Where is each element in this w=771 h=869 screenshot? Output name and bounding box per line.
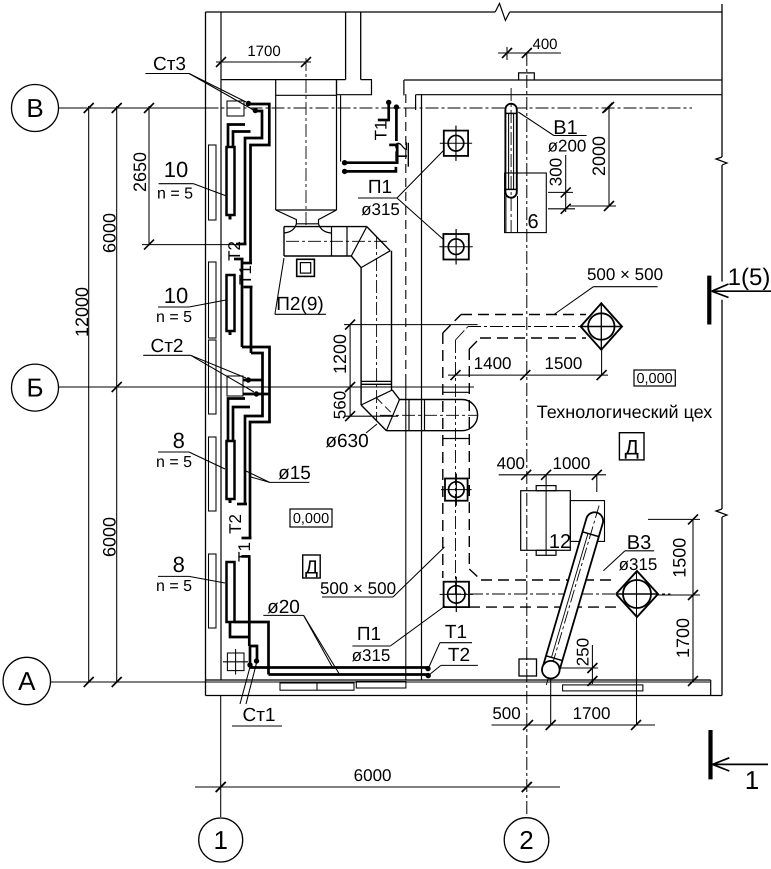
duct D630 horizontal top run [284,226,367,228]
unit P2 outlet flare [284,224,296,233]
svg-text:8: 8 [173,428,185,453]
svg-text:400: 400 [532,36,557,53]
wall break symbol right lower [716,509,727,517]
pipe T1 resume [244,286,253,289]
duct 500x500 bottom elbow chamfer [469,569,481,580]
svg-text:250: 250 [573,638,592,666]
duct 500x500 vertical dashed right [468,349,470,569]
riser St3 box [227,101,244,116]
B3 bottom anchor square [519,659,537,676]
window niche left wall 3 [209,340,217,414]
axis line 2 vertical [526,53,528,817]
svg-text:П2(9): П2(9) [276,294,323,315]
svg-text:10: 10 [164,157,188,182]
label T2 underline [407,143,409,167]
svg-text:Б: Б [26,373,43,403]
motor box below duct [297,259,315,276]
radiator 4 (8 n=5) [227,562,235,622]
pipe branch to radiator 3 b [233,407,250,441]
dimension 6000 bottom [195,786,560,788]
svg-text:1: 1 [213,825,227,855]
supply unit P2 body [275,80,277,210]
window niche left wall 1 [209,145,217,220]
riser St3 dots [246,101,251,106]
svg-text:n = 5: n = 5 [157,186,193,203]
pipe branch to radiator 1 b [233,132,251,148]
svg-text:ø315: ø315 [361,200,400,219]
window in bottom wall right [563,685,643,691]
dimension line 12000 [88,106,90,682]
svg-text:Т2: Т2 [448,645,470,666]
svg-text:12000: 12000 [72,287,92,337]
pipe T1 to unit [389,144,398,147]
riser St2 dots [246,377,251,382]
svg-text:n = 5: n = 5 [156,454,192,471]
svg-text:В: В [26,93,43,123]
svg-text:Д: Д [625,437,639,460]
exhaust B1 capsule [505,104,516,198]
svg-text:Т1: Т1 [236,265,255,285]
pipe T2 to unit [345,167,396,172]
axis circle Б [12,364,59,411]
duct 500x500 centerline vertical [455,340,457,594]
section mark 1 bottom right [708,730,712,779]
radiator 2 (10 n=5) [227,275,235,331]
wall: top-left room right pier [345,12,347,80]
wall: left outer wall [205,12,207,696]
unit P2 centerline [305,58,307,228]
svg-text:0,000: 0,000 [636,371,672,387]
duct capsule centerline [380,414,478,416]
dimension 400 top left extension [506,47,508,60]
svg-text:Технологический цех: Технологический цех [537,402,713,422]
radiator 1 (10 n=5) [227,147,235,215]
axis circle B [12,85,59,132]
pipe staircase at St2 inner [245,353,263,504]
svg-text:ø315: ø315 [619,555,658,574]
box 12 right attachment [570,501,604,542]
dimension 2000 (B1) [608,107,610,206]
svg-text:500: 500 [492,704,520,723]
pipe T1 end cap upper [243,262,252,265]
axis circle 2 [504,818,549,863]
pipe bottom run T1 [249,665,252,668]
pipe T2 staircase top [245,111,262,244]
svg-text:n = 5: n = 5 [156,309,192,326]
window in bottom wall left [280,683,354,690]
window niche left wall 5 [209,554,217,628]
duct capsule joints [408,400,410,431]
diffuser bottom vertical line [636,571,638,725]
wall: top wall with break [206,11,496,13]
pipe branch to radiator 3 a [228,399,245,442]
P1 duct outlet anchor bottom [444,582,469,607]
duct D630 flange joint above elbow [361,380,391,382]
duct D630 bottom elbow [361,405,386,431]
svg-text:2: 2 [519,825,533,855]
wall: top-left room bottom wall [221,79,346,81]
B1 centerline [510,88,512,234]
P1 duct outlet anchor top 2 [443,234,468,260]
pipe T2 resume [234,258,244,261]
wall: column notch at axis 2 [519,73,535,80]
wall: bottom wall right inner jamb [710,680,712,696]
diffuser top vertical line [600,302,602,348]
riser St2 stubs [243,379,263,382]
svg-text:6000: 6000 [99,517,119,557]
axis circle А [3,657,50,704]
svg-text:Д: Д [305,558,318,579]
wall: corridor wall dashed foundation line [405,94,407,380]
axis line Б horizontal [59,386,475,388]
svg-text:6000: 6000 [354,766,392,785]
svg-text:ø200: ø200 [548,137,587,156]
axis circle 1 [199,818,243,862]
duct D630 vertical run [360,268,362,405]
riser dots at wall (T1 T2 to unit) [386,100,391,105]
wall: bottom wall inner [206,679,711,681]
dimension 1200 (duct) [349,325,351,387]
svg-text:6: 6 [527,211,538,233]
wall: corridor wall solid line [421,94,423,680]
svg-text:1200: 1200 [330,334,350,374]
axis line А horizontal [51,681,711,683]
pipe to St1 dots [249,646,257,661]
svg-text:12: 12 [549,531,571,553]
duct 500x500 vertical dashed left [442,333,444,578]
svg-text:ø20: ø20 [267,597,300,618]
riser St1 dots [247,662,252,667]
svg-text:2000: 2000 [589,136,609,176]
unit P2 hopper trapezoid [276,209,337,211]
dimension 560 (duct) [349,387,351,416]
svg-text:10: 10 [164,283,188,308]
duct D630 horizontal bottom capsule [400,399,463,401]
label 0,000 left box [290,509,332,527]
svg-text:ø15: ø15 [278,463,311,484]
window niche left wall 4 [209,437,217,511]
pipe staircase at St2 outer [242,347,270,538]
wall: pier step block [337,80,372,95]
wall break symbol top [495,3,510,20]
label 0,000 right box [634,370,675,386]
pipe T1 staircase top [248,104,269,263]
ceiling diffuser diamond bottom [616,571,658,617]
wall: left inner wall line [220,12,222,680]
svg-text:6000: 6000 [99,213,119,253]
svg-text:ø630: ø630 [325,431,368,452]
radiator 3 (8 n=5) [227,441,235,499]
duct D630 top elbow [367,227,390,251]
pipe T2 end cap upper [236,243,247,246]
svg-text:500 × 500: 500 × 500 [320,579,396,598]
svg-text:1700: 1700 [573,704,611,723]
svg-text:1000: 1000 [552,454,590,473]
riser St1 box with cross [227,653,244,671]
pipe bottom run T2 [269,673,429,676]
duct D630 joints [331,227,333,256]
dimension 1400/1500 middle [448,374,608,376]
svg-text:560: 560 [330,391,349,419]
window niche left wall 2 [209,262,217,338]
svg-text:8: 8 [173,552,185,577]
svg-text:П1: П1 [368,177,392,198]
equipment box 12 [521,491,571,551]
svg-text:Ст3: Ст3 [153,54,186,75]
dimension line 6000/6000 [116,106,118,682]
pipe T2 end cap lower [237,503,247,506]
svg-text:Т2: Т2 [226,514,245,534]
svg-text:1400: 1400 [474,354,512,373]
dimension 1700 top [216,61,311,63]
svg-text:Ст1: Ст1 [243,705,276,726]
wall: top-right room wall inner [416,94,722,96]
svg-text:1700: 1700 [247,43,280,60]
duct D630 elbow centerline diagonal [377,398,393,415]
wall: right wall with breaks [721,4,723,157]
dimension 400/1000 (unit 12) [499,474,606,476]
label D left box [303,555,321,578]
svg-text:400: 400 [497,454,525,473]
dimension 1700 right [692,595,694,681]
duct 500x500 top elbow chamfer [443,315,461,334]
duct 500x500 bottom horizontal dashed [481,579,616,581]
wall break symbol right upper [716,157,727,165]
svg-text:П1: П1 [357,624,381,645]
pipe T1 resume to St1 [242,555,251,558]
wall: bottom wall outer [206,695,723,697]
P1 duct outlet anchor top 1 [444,131,468,156]
svg-text:Т1: Т1 [235,542,254,562]
exhaust B3 angled capsule [538,503,607,687]
svg-text:0,000: 0,000 [293,511,329,527]
equipment box 6 [505,173,547,233]
pipe radiator4 return [235,622,269,675]
B3 bottom outlet circle [542,661,560,679]
dimension 300 (B1) [565,155,567,212]
riser St2 box [227,376,243,396]
dimension 250 (B3) [591,645,593,684]
axis line 1 vertical [220,696,222,818]
wall: top-right room wall outer [404,79,722,81]
dimension 500/1700 bottom [492,724,656,726]
svg-text:Т1: Т1 [371,121,390,141]
pipe branch to radiator 1 a [228,125,245,148]
axis line B ticks [84,103,94,113]
B1 inner duct lines [508,113,510,189]
pipe T1 riser stub with end cap [387,102,390,120]
dimension line 2650 [148,106,150,245]
dimension 1500 right [692,519,694,595]
wall: top-right wall left end [403,80,405,95]
duct 500x500 centerline horizontal top [468,326,622,328]
dimension 400 top [498,52,561,54]
svg-text:500 × 500: 500 × 500 [587,265,663,284]
window in bottom wall mid [356,682,406,689]
svg-text:Т1: Т1 [445,622,467,643]
ceiling diffuser diamond top [581,303,622,349]
pipe radiator4 stub [230,622,250,637]
P1 duct outlet anchor mid [445,479,468,501]
svg-text:2650: 2650 [130,152,150,192]
duct 500x500 top horizontal dashed [461,314,586,316]
svg-text:n = 5: n = 5 [156,578,192,595]
svg-text:Ст2: Ст2 [151,336,184,357]
svg-text:300: 300 [546,158,565,186]
svg-text:1(5): 1(5) [728,264,771,291]
svg-text:ø315: ø315 [352,646,391,665]
svg-text:А: А [18,666,36,696]
section mark 1(5) right [707,276,711,325]
svg-text:1700: 1700 [673,618,693,658]
pipe T1 end cap lower [242,537,252,540]
duct joint flanges at capsule crossing [443,391,470,393]
B1 flange lines [505,112,516,114]
label D right box [619,433,644,460]
svg-text:1500: 1500 [544,354,582,373]
svg-text:1500: 1500 [670,538,690,578]
dimension 2650 bottom extension [142,244,243,246]
duct 500x500 centerline horizontal bottom [448,593,671,595]
axis line B horizontal [59,107,206,109]
pipe T2 riser vertical upper [395,107,398,141]
duct D630 centerlines [286,240,388,242]
svg-text:1: 1 [745,765,759,795]
